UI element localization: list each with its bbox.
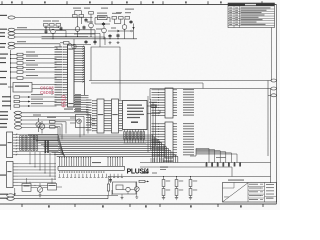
wire U8 pins right xyxy=(32,84,57,86)
main address bus band xyxy=(28,135,178,163)
sheet border right xyxy=(276,5,278,205)
jumper link J2 xyxy=(14,100,20,102)
wire Q4 drop xyxy=(103,33,105,39)
diode CR2 xyxy=(133,26,135,31)
crystal Y1 xyxy=(98,16,108,20)
label top e xyxy=(87,22,93,23)
keyboard connector lower stubs xyxy=(58,174,123,178)
cpu U2 part number label xyxy=(64,109,73,110)
resistor R11 xyxy=(17,66,23,69)
wire R6 drop xyxy=(113,19,115,23)
ram U7 right pins and labels xyxy=(173,123,194,155)
resistor pack RP2 xyxy=(20,136,38,151)
connector pin P5 xyxy=(8,42,15,45)
resistor R5 xyxy=(79,15,84,18)
connector J4 pins and wires xyxy=(13,163,56,185)
wire P5 net xyxy=(15,43,60,45)
label R11 xyxy=(26,65,38,66)
revision table xyxy=(228,3,275,28)
transistor Q7 xyxy=(126,187,130,191)
transistor Q6 xyxy=(39,124,45,130)
transistor Q10 xyxy=(134,187,139,192)
wire branch 58.5 xyxy=(11,58,18,60)
wire R5 drop xyxy=(80,17,82,24)
wire branch 67.5 xyxy=(11,67,18,69)
wire option rail top xyxy=(140,162,271,164)
wire Q2 stub xyxy=(77,17,79,27)
connector pin P9 luma xyxy=(15,118,22,121)
wire diagonal fan to CN1 xyxy=(58,134,65,157)
label jumper 1 xyxy=(31,94,43,95)
ram mux bus verticals xyxy=(148,96,156,152)
ram U6 body xyxy=(165,88,173,118)
wire comb2 feed xyxy=(195,149,197,157)
junction dots cluster xyxy=(53,36,119,39)
resistor R6 xyxy=(112,17,117,20)
rom U3 body xyxy=(97,99,104,133)
option jumper diodes row xyxy=(206,162,241,166)
filter divider R26 pair xyxy=(189,176,197,200)
wire RP1 bottom rail xyxy=(124,142,147,144)
connector pin P14 xyxy=(271,79,277,82)
resistor R23 xyxy=(107,184,109,191)
capacitor C9 xyxy=(94,40,96,44)
wire CR2 net xyxy=(133,24,135,27)
trimmer R20 xyxy=(36,122,41,127)
resistor R12 xyxy=(17,71,23,74)
rom U4 label xyxy=(112,114,117,115)
wire jumper 1 net xyxy=(31,96,57,98)
capacitor C1 xyxy=(45,30,47,35)
label jumper 2 xyxy=(31,99,43,100)
wire cluster rail e xyxy=(74,44,91,46)
filter divider R25 pair xyxy=(175,176,183,200)
label R10 xyxy=(26,60,35,61)
inverter U8 xyxy=(13,83,32,93)
transistor Q5 xyxy=(122,25,127,30)
capacitor C3 xyxy=(103,22,105,26)
rom U4 body xyxy=(112,99,119,133)
resistor R30 xyxy=(64,42,70,45)
wire P11 net xyxy=(22,127,59,129)
resistor R3 xyxy=(56,24,61,27)
title block xyxy=(223,183,277,203)
wire Q5 leads xyxy=(124,19,126,25)
ground symbol PS1a xyxy=(121,197,124,199)
connector pin P6 xyxy=(8,46,15,49)
modulator box M1 xyxy=(76,115,91,128)
cpu U2 designator xyxy=(68,49,73,50)
capacitor C5 xyxy=(117,34,119,39)
resistor R32 xyxy=(125,17,130,20)
label osc xyxy=(47,117,56,118)
connector J3 label xyxy=(8,142,12,143)
connector pin P13 xyxy=(7,197,15,200)
connector J4 label xyxy=(7,171,11,172)
wire luma net xyxy=(22,119,81,121)
connector pin P12 xyxy=(7,194,15,197)
capacitor C2 xyxy=(85,18,87,22)
sheet border bottom xyxy=(0,203,277,205)
wire Q6 leads xyxy=(41,121,43,124)
label cluster1 xyxy=(43,21,51,22)
wire TED video out xyxy=(150,88,203,90)
cpu U2 data bus pins xyxy=(74,94,89,112)
connector pin P1 RESET xyxy=(8,16,15,19)
connector pin P15 xyxy=(271,87,277,90)
border zone numerals bottom xyxy=(48,205,242,207)
wire right horizontal b xyxy=(91,82,203,84)
cpu U2 left pin labels xyxy=(55,46,63,105)
label top g xyxy=(111,28,116,29)
resistor R21 xyxy=(50,121,56,124)
sheet border top xyxy=(0,4,277,6)
label CN1 xyxy=(92,162,101,163)
ram U7 bottom pin fan xyxy=(151,158,163,163)
wire J4 risers xyxy=(30,152,55,179)
keyboard connector pin numbers xyxy=(59,171,105,172)
border zone numerals top xyxy=(11,1,222,3)
address bus vertical xyxy=(84,47,86,96)
left margin signal name labels xyxy=(0,15,11,199)
resistor R22 xyxy=(50,126,56,129)
wire R4 R5 tops xyxy=(74,11,76,15)
resistor R31 xyxy=(89,12,94,15)
border zone tick marks top xyxy=(2,1,262,4)
label right of title xyxy=(160,167,168,168)
capacitor C10 xyxy=(85,40,87,44)
wire P3 net xyxy=(15,32,100,34)
wire branch 72 xyxy=(11,71,18,73)
wire audio net xyxy=(22,123,63,125)
rom U3 label xyxy=(98,114,103,115)
wire P13 net xyxy=(14,198,108,200)
capacitor C8 xyxy=(130,20,132,24)
label above P2 wire xyxy=(17,27,27,28)
connector pin P16 xyxy=(271,94,277,97)
resistor R1 xyxy=(44,24,49,27)
ground symbol cluster2 xyxy=(117,41,119,43)
transistor Q3 xyxy=(89,23,94,28)
rom U3 left pins xyxy=(92,100,97,131)
bus comb to configuration row xyxy=(196,149,237,163)
capacitor C11 xyxy=(60,27,62,31)
label R9 xyxy=(26,56,38,57)
rom U4 right pins xyxy=(119,101,123,131)
wire branch 78 xyxy=(11,77,18,79)
regulator inner box xyxy=(116,185,123,190)
wire Q1 drop xyxy=(52,34,54,39)
svg-text:6510: 6510 xyxy=(62,95,68,107)
ground symbol PS1b xyxy=(135,196,138,198)
label 9V xyxy=(142,173,148,174)
resistor pack RP1 under TED xyxy=(124,130,145,144)
border zone tick marks bottom xyxy=(22,204,263,207)
label Y1 value xyxy=(97,13,107,14)
capacitor C7 xyxy=(83,26,85,30)
connector pin P7 video xyxy=(15,111,22,114)
connector pin P11 ground xyxy=(15,126,22,129)
junction dots cluster left xyxy=(46,27,47,28)
wire branch 54.5 xyxy=(11,54,18,56)
wire video net xyxy=(22,112,89,114)
wire from revision area down xyxy=(271,28,273,81)
wire cluster rail c xyxy=(95,23,110,25)
rom U3 right pins xyxy=(104,101,112,131)
connector pin P3 xyxy=(8,32,15,35)
wire Q3 leads xyxy=(90,15,92,24)
wire P6 net xyxy=(15,46,57,48)
resistor R8 xyxy=(17,53,23,56)
resistor R7 xyxy=(119,17,124,20)
cpu U2 body xyxy=(68,45,75,107)
wire chroma net xyxy=(22,115,85,117)
wire cluster right rail xyxy=(108,30,116,32)
wire RESET to clock circuit xyxy=(15,17,93,19)
wire video bus right vertical xyxy=(267,81,269,157)
wire option rail bottom xyxy=(140,166,232,168)
diode box CR3 xyxy=(48,184,57,191)
wire cluster rail b xyxy=(42,38,138,40)
label MR101 xyxy=(125,9,134,10)
label above P5 wire xyxy=(17,41,26,42)
svg-text:C6D0S: C6D0S xyxy=(40,90,54,95)
wire cluster rail a xyxy=(42,36,89,38)
svg-text:PLUS/4: PLUS/4 xyxy=(127,168,150,175)
wire right horizontal a xyxy=(89,80,271,82)
cpu U2 address bus pins xyxy=(74,46,85,83)
wire P4 net xyxy=(15,36,105,38)
wire jumper 2 net xyxy=(31,101,57,103)
ground symbol aux xyxy=(39,194,42,196)
resistor R9 xyxy=(17,57,23,60)
power box PS1 xyxy=(113,182,137,194)
ground symbol cluster xyxy=(109,41,111,43)
wire PS1 stubs xyxy=(123,189,126,191)
wire cluster seg b xyxy=(56,30,66,32)
jumper link J3 xyxy=(14,105,20,107)
wire aux right vertical xyxy=(270,89,272,184)
ram U7 label below xyxy=(163,161,173,162)
wire R9 to CPU xyxy=(23,58,57,60)
wire M1 pins xyxy=(70,117,76,119)
label R13 xyxy=(26,75,38,76)
resistor R4 xyxy=(73,15,78,18)
title block upper note xyxy=(228,180,244,181)
junction dots rail xyxy=(10,54,11,79)
wire cluster seg a xyxy=(44,27,58,29)
label option row xyxy=(216,157,226,158)
wire U8 pin left xyxy=(8,86,13,88)
label R12 xyxy=(26,69,35,70)
wire R10 to CPU xyxy=(23,62,57,64)
keyboard connector CN1 pins xyxy=(59,157,123,166)
label top cluster right xyxy=(112,13,121,14)
label top a xyxy=(73,8,81,9)
component K1 dark bar xyxy=(45,140,47,153)
wire aux cluster xyxy=(31,186,37,188)
label TED pin a xyxy=(149,102,157,103)
label R8 xyxy=(26,52,35,53)
transistor Q1 xyxy=(51,29,56,34)
wire osc join xyxy=(55,121,66,123)
wire TED right pin b xyxy=(147,113,160,115)
arrow down J4 xyxy=(14,188,16,195)
label top b xyxy=(84,8,90,9)
wire R13 to CPU xyxy=(23,77,57,79)
terminal open end xyxy=(131,30,133,32)
connector pin P8 chroma xyxy=(15,115,22,118)
wire Y1 leads xyxy=(95,17,98,19)
wire phi0 inverted-U xyxy=(91,47,120,100)
transistor Q9 xyxy=(37,187,43,193)
wire 9V rail xyxy=(108,176,271,178)
transistor Q4 xyxy=(102,28,107,33)
connector J4 body xyxy=(7,162,14,188)
wire R30 net xyxy=(60,42,64,44)
rom address labels xyxy=(86,100,92,131)
cpu U2 left pin stubs xyxy=(63,47,68,106)
label top f xyxy=(96,29,102,30)
label cluster2 xyxy=(52,21,59,22)
transistor Q8 xyxy=(72,44,76,48)
wire TED right pin a xyxy=(147,105,156,107)
wire phi2 branch xyxy=(99,45,101,47)
wire R1 drop xyxy=(45,26,47,29)
label jumper 3 xyxy=(31,103,43,104)
diode CR1 xyxy=(116,30,121,32)
filter divider R24 pair xyxy=(162,176,170,200)
wire P12 net xyxy=(14,194,118,196)
wire cluster rail d xyxy=(74,33,95,35)
label top h xyxy=(125,12,131,13)
wire R8 to CPU xyxy=(23,54,57,56)
resistor R10 xyxy=(17,62,23,65)
connector pin P2 xyxy=(8,28,15,31)
wire P2 net xyxy=(15,29,95,31)
wire jumper 3 net xyxy=(31,105,57,107)
video chip U5 TED xyxy=(123,101,148,130)
wire option rail to title block xyxy=(231,167,233,177)
ram U6 right pins and labels xyxy=(173,89,194,116)
wire R12 to CPU xyxy=(23,71,57,73)
capacitor C4 xyxy=(109,34,111,39)
wire left vertical rail xyxy=(10,50,12,110)
jumper link J1 xyxy=(14,96,20,98)
wire branch 63 xyxy=(11,62,18,64)
resistor R2 xyxy=(50,24,55,27)
ram U6 left pins xyxy=(152,89,166,115)
ram U7 body xyxy=(165,122,173,158)
keyboard connector CN1 body xyxy=(58,165,125,167)
connector pin P4 xyxy=(8,35,15,38)
connector pin P10 audio xyxy=(15,122,22,125)
wire R11 to CPU xyxy=(23,67,57,69)
capacitor C6 xyxy=(110,178,112,183)
wire drops cluster left xyxy=(45,28,47,30)
connector J3 body xyxy=(7,132,13,158)
resistor R33 xyxy=(139,180,145,182)
label top c xyxy=(101,8,108,9)
ram U7 left pins xyxy=(152,123,166,155)
transistor Q2 xyxy=(75,27,80,32)
label trimmer xyxy=(33,115,41,116)
label top d xyxy=(116,12,122,13)
resistor R13 xyxy=(17,77,23,80)
relay box K2 xyxy=(22,184,31,192)
connector J3 pins xyxy=(13,133,58,155)
